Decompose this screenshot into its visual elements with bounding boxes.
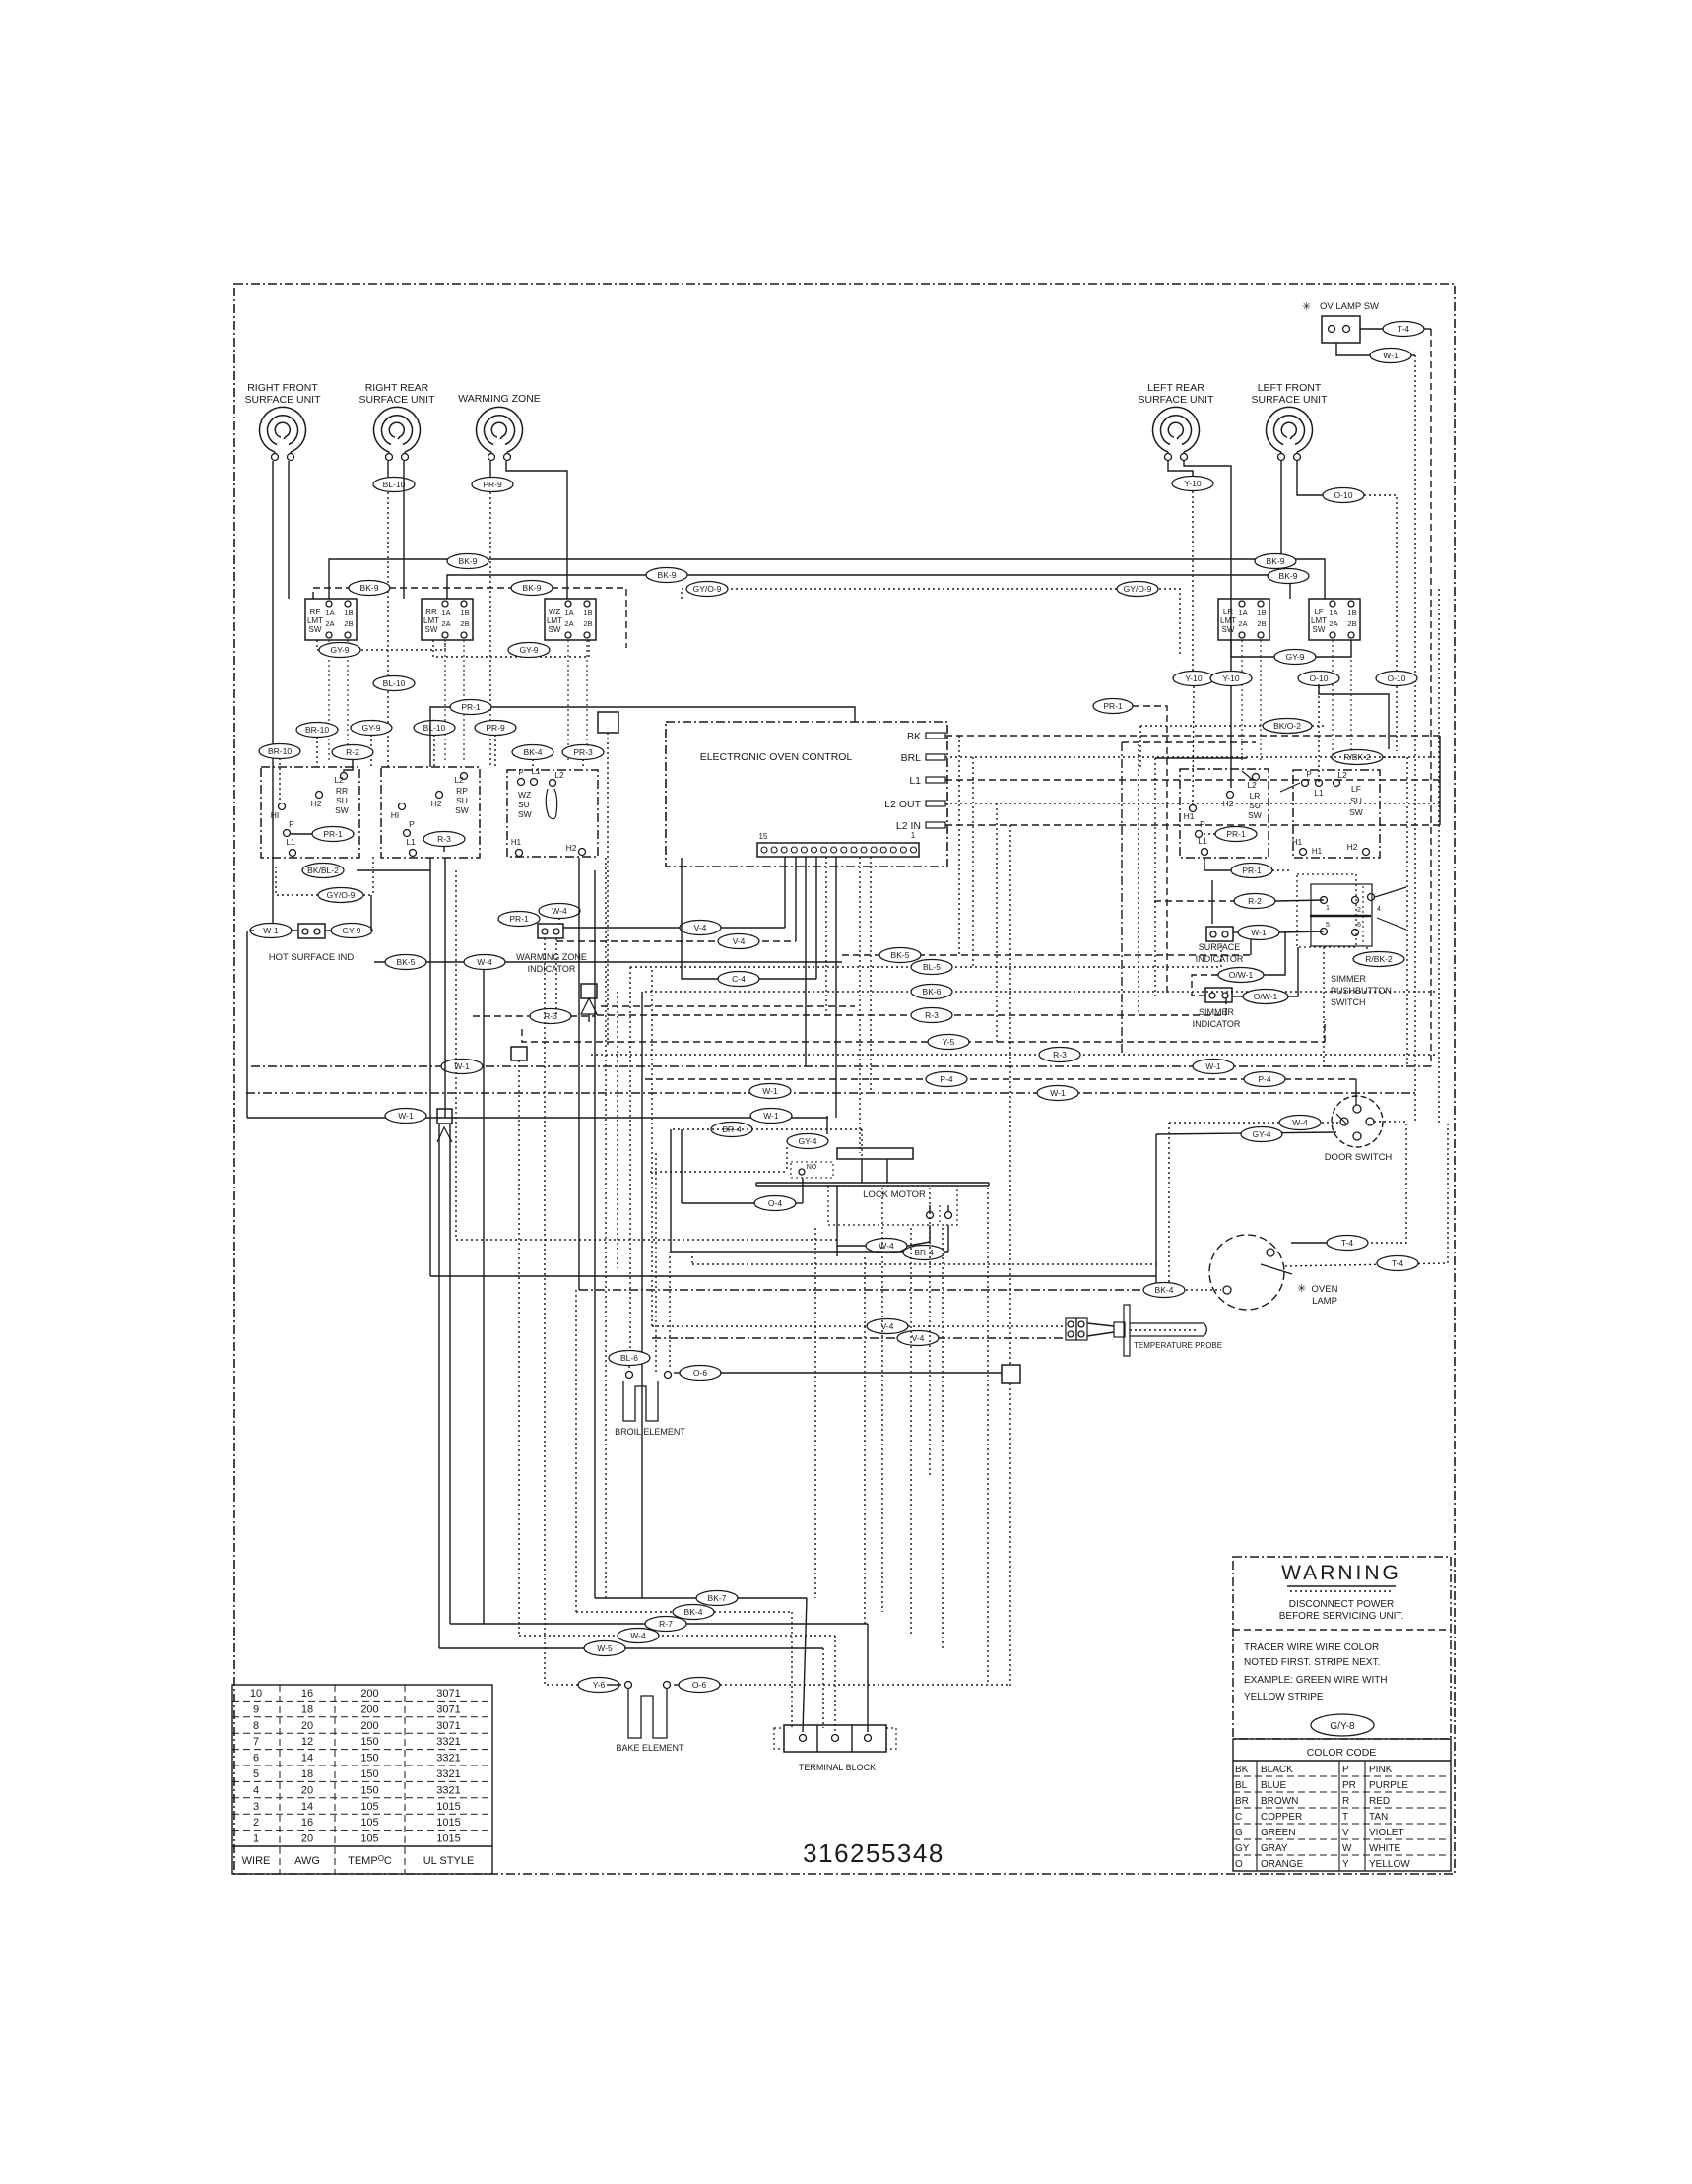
- wire BK-5 W-4: [374, 930, 1251, 970]
- svg-text:RR: RR: [336, 786, 348, 796]
- svg-text:H2: H2: [431, 799, 442, 808]
- wire R-2 right: [1154, 894, 1324, 909]
- svg-text:BK/O-2: BK/O-2: [1273, 721, 1301, 731]
- wire GY-4 to door switch: [1156, 1127, 1336, 1291]
- wire marker BK-O-2: [1140, 719, 1325, 769]
- svg-text:VIOLET: VIOLET: [1369, 1828, 1404, 1838]
- EOC output L2 IN: [896, 820, 1440, 832]
- wire BK-6: [645, 985, 1438, 999]
- wire GY-9 below RF box: [317, 640, 445, 658]
- wire C-4: [682, 858, 816, 987]
- EOC right edge drop: [959, 736, 1440, 1042]
- svg-text:PR-1: PR-1: [1103, 701, 1123, 711]
- svg-text:BL-10: BL-10: [383, 480, 406, 489]
- svg-text:H1: H1: [511, 838, 522, 847]
- svg-text:PR-1: PR-1: [1226, 829, 1246, 839]
- wire W-4 to door switch: [1169, 1116, 1340, 1291]
- svg-text:R-2: R-2: [1248, 896, 1262, 906]
- svg-text:ORANGE: ORANGE: [1261, 1859, 1304, 1870]
- svg-text:W-5: W-5: [597, 1643, 613, 1653]
- svg-text:L1: L1: [1314, 788, 1324, 798]
- svg-text:18: 18: [301, 1768, 313, 1780]
- wire BL-6: [609, 1351, 650, 1371]
- svg-text:BK-9: BK-9: [459, 556, 478, 566]
- svg-text:BK-9: BK-9: [360, 583, 379, 593]
- svg-text:LMT: LMT: [1220, 616, 1236, 625]
- svg-text:20: 20: [301, 1720, 313, 1732]
- svg-text:T: T: [1342, 1812, 1348, 1823]
- svg-text:TEMPERATURE PROBE: TEMPERATURE PROBE: [1134, 1341, 1222, 1350]
- svg-text:W-1: W-1: [763, 1111, 779, 1121]
- svg-text:GY-9: GY-9: [342, 926, 360, 935]
- svg-text:LR: LR: [1250, 791, 1261, 801]
- wire T-4 from lamp switch: [1360, 322, 1431, 1067]
- svg-text:O-10: O-10: [1334, 490, 1353, 500]
- wire marker GY-9: [351, 721, 392, 768]
- svg-text:3071: 3071: [436, 1720, 460, 1732]
- svg-text:T-4: T-4: [1398, 324, 1410, 334]
- svg-text:W-1: W-1: [1050, 1088, 1066, 1098]
- svg-text:BL-10: BL-10: [423, 723, 446, 733]
- limit switch LR LMT SW: [1218, 599, 1269, 762]
- svg-text:COPPER: COPPER: [1261, 1812, 1302, 1823]
- svg-text:WHITE: WHITE: [1369, 1843, 1401, 1854]
- svg-text:OV LAMP SW: OV LAMP SW: [1320, 301, 1379, 312]
- svg-text:RR: RR: [425, 608, 437, 616]
- svg-text:DOOR SWITCH: DOOR SWITCH: [1325, 1152, 1393, 1163]
- svg-text:R-3: R-3: [544, 1011, 557, 1021]
- svg-text:LR: LR: [1223, 608, 1233, 616]
- svg-text:12: 12: [301, 1736, 313, 1748]
- svg-text:Y-10: Y-10: [1222, 674, 1239, 683]
- wire RF coil right lead: [288, 461, 290, 599]
- junction box 3 with arrow: [437, 1109, 452, 1142]
- svg-text:GY-9: GY-9: [330, 645, 349, 655]
- svg-text:T-4: T-4: [1392, 1258, 1404, 1268]
- svg-text:1A: 1A: [441, 609, 450, 617]
- svg-text:TAN: TAN: [1369, 1812, 1388, 1823]
- svg-text:SW: SW: [1222, 625, 1235, 634]
- svg-text:P: P: [1306, 770, 1311, 779]
- svg-text:W-1: W-1: [1251, 928, 1267, 937]
- svg-text:PUSHBUTTON: PUSHBUTTON: [1331, 986, 1392, 996]
- svg-text:200: 200: [360, 1720, 378, 1732]
- svg-text:W-1: W-1: [1205, 1061, 1221, 1071]
- wire BK-4 to lamp: [579, 858, 1231, 1298]
- svg-text:T-4: T-4: [1341, 1238, 1354, 1248]
- svg-text:BK-5: BK-5: [891, 950, 910, 960]
- surface unit coil LEFT FRONT: [1251, 382, 1328, 461]
- svg-text:BAKE ELEMENT: BAKE ELEMENT: [616, 1743, 684, 1753]
- svg-text:ELECTRONIC OVEN CONTROL: ELECTRONIC OVEN CONTROL: [700, 751, 853, 763]
- svg-text:O: O: [1235, 1859, 1243, 1870]
- wire marker R-2: [332, 745, 373, 774]
- svg-text:W-1: W-1: [263, 926, 279, 935]
- svg-text:O-10: O-10: [1388, 674, 1406, 683]
- surface switch RP SU SW: [381, 767, 480, 858]
- wire V-4 second: [556, 934, 796, 949]
- svg-text:P-4: P-4: [940, 1074, 953, 1084]
- svg-text:200: 200: [360, 1688, 378, 1700]
- svg-text:L2: L2: [334, 775, 344, 785]
- svg-text:W-4: W-4: [477, 957, 492, 967]
- svg-text:GY-9: GY-9: [361, 723, 380, 733]
- svg-text:G: G: [1235, 1828, 1243, 1838]
- svg-text:H2: H2: [566, 843, 577, 853]
- svg-text:BK/BL-2: BK/BL-2: [307, 866, 339, 875]
- bus wire GY-O-9: [682, 582, 1180, 656]
- EOC terminal strip: [757, 831, 919, 857]
- svg-text:BK: BK: [1235, 1765, 1249, 1775]
- svg-text:1B: 1B: [1257, 609, 1266, 617]
- svg-text:BLUE: BLUE: [1261, 1780, 1286, 1791]
- surface switch LF SU SW: [1280, 770, 1380, 858]
- svg-text:105: 105: [360, 1817, 378, 1829]
- svg-text:PR-1: PR-1: [461, 702, 481, 712]
- surface unit coil WARMING ZONE: [458, 393, 541, 461]
- svg-text:WIRE: WIRE: [242, 1855, 271, 1867]
- svg-text:R/BK-2: R/BK-2: [1343, 752, 1371, 762]
- svg-text:PR-1: PR-1: [1242, 866, 1262, 875]
- svg-text:V-4: V-4: [912, 1333, 925, 1343]
- wire W-5: [439, 1641, 823, 1729]
- svg-text:Y: Y: [1342, 1859, 1349, 1870]
- svg-text:SW: SW: [335, 805, 349, 815]
- svg-text:P: P: [409, 819, 415, 829]
- svg-text:LEFT FRONT: LEFT FRONT: [1258, 382, 1322, 394]
- svg-text:9: 9: [253, 1703, 259, 1715]
- wire T-4 lower: [1285, 1123, 1448, 1271]
- wire O-4: [682, 1129, 803, 1211]
- svg-text:2B: 2B: [1257, 619, 1266, 628]
- svg-text:14: 14: [301, 1753, 313, 1765]
- svg-text:6: 6: [253, 1753, 259, 1765]
- svg-text:BK-4: BK-4: [524, 747, 543, 757]
- wire W-4 below motor: [837, 1186, 930, 1256]
- svg-text:O-10: O-10: [1310, 674, 1329, 683]
- wire gauge table: [232, 1685, 492, 1874]
- surface indicator: [1196, 880, 1244, 964]
- wire GY-4 into motor: [650, 1116, 828, 1172]
- limit switch RF LMT SW: [305, 599, 357, 762]
- svg-text:7: 7: [253, 1736, 259, 1748]
- EOC output L2 OUT: [884, 799, 1440, 810]
- svg-text:BR-10: BR-10: [268, 746, 292, 756]
- wire W-1 third: [247, 1109, 828, 1124]
- svg-text:TEMPOC: TEMPOC: [348, 1854, 392, 1867]
- svg-text:W-4: W-4: [1292, 1118, 1308, 1127]
- wire bake Y-6 O-6: [545, 938, 1010, 1693]
- svg-text:W-4: W-4: [630, 1631, 646, 1640]
- svg-text:O/W-1: O/W-1: [1229, 970, 1254, 980]
- surface switch RR SU SW: [261, 767, 359, 858]
- svg-text:SU: SU: [518, 800, 530, 809]
- svg-text:L2 IN: L2 IN: [896, 820, 921, 832]
- page border frame: [234, 284, 1455, 1874]
- svg-text:BK-7: BK-7: [708, 1593, 727, 1603]
- svg-text:1015: 1015: [436, 1801, 460, 1813]
- svg-text:RIGHT REAR: RIGHT REAR: [365, 382, 429, 394]
- wire R-3 long: [597, 995, 1226, 1023]
- svg-text:AWG: AWG: [294, 1855, 320, 1867]
- svg-text:P: P: [289, 819, 294, 829]
- svg-text:LMT: LMT: [547, 616, 562, 625]
- svg-text:15: 15: [759, 832, 768, 841]
- wire W-1 from lamp switch: [1336, 343, 1415, 1123]
- simmer pushbutton switch: [1297, 874, 1406, 1066]
- svg-text:L1: L1: [532, 767, 541, 776]
- svg-text:BRL: BRL: [901, 752, 922, 764]
- svg-text:BL-10: BL-10: [383, 678, 406, 688]
- svg-text:L2: L2: [1337, 770, 1347, 780]
- color code table: [1233, 1739, 1451, 1871]
- svg-text:1015: 1015: [436, 1833, 460, 1845]
- wire W-1 second: [246, 1084, 1415, 1101]
- wire BK-4 bottom: [576, 1290, 792, 1728]
- svg-text:SW: SW: [518, 809, 532, 819]
- svg-text:NOTED FIRST. STRIPE NEXT.: NOTED FIRST. STRIPE NEXT.: [1244, 1657, 1380, 1668]
- svg-text:SW: SW: [1349, 807, 1363, 817]
- svg-text:BK-4: BK-4: [1155, 1285, 1174, 1295]
- wire junction drops: [439, 1124, 450, 1648]
- svg-text:2B: 2B: [1347, 619, 1356, 628]
- wire marker R-BK-2 upper: [1332, 750, 1407, 1067]
- svg-text:WARMING ZONE: WARMING ZONE: [458, 393, 541, 405]
- wire R-7: [450, 1617, 868, 1733]
- svg-text:1: 1: [911, 831, 916, 840]
- svg-text:C-4: C-4: [732, 974, 746, 984]
- svg-text:1: 1: [1326, 905, 1330, 912]
- svg-text:6: 6: [1357, 922, 1361, 929]
- wire GY-O-9 left: [276, 857, 373, 903]
- svg-text:BK-6: BK-6: [923, 987, 942, 996]
- warning box: [1233, 1557, 1451, 1739]
- svg-text:P-4: P-4: [1258, 1074, 1271, 1084]
- EOC output L1: [909, 775, 1440, 787]
- svg-text:SW: SW: [455, 805, 469, 815]
- svg-text:14: 14: [301, 1801, 313, 1813]
- svg-text:3071: 3071: [436, 1688, 460, 1700]
- svg-text:SW: SW: [549, 625, 561, 634]
- svg-text:O/W-1: O/W-1: [1254, 992, 1278, 1001]
- surface switch WZ SU SW: [507, 767, 598, 857]
- svg-text:HOT SURFACE IND: HOT SURFACE IND: [269, 952, 355, 963]
- svg-text:UL STYLE: UL STYLE: [423, 1855, 475, 1867]
- svg-text:O-6: O-6: [692, 1680, 706, 1690]
- wire T-4 loop: [1291, 1122, 1406, 1251]
- svg-text:150: 150: [360, 1784, 378, 1796]
- svg-text:V-4: V-4: [733, 936, 746, 946]
- svg-text:1015: 1015: [436, 1817, 460, 1829]
- svg-text:W-1: W-1: [762, 1086, 778, 1096]
- svg-text:3321: 3321: [436, 1784, 460, 1796]
- svg-text:BLACK: BLACK: [1261, 1765, 1293, 1775]
- svg-text:1A: 1A: [1238, 609, 1247, 617]
- svg-text:BK-9: BK-9: [523, 583, 542, 593]
- svg-text:18: 18: [301, 1703, 313, 1715]
- svg-text:V-4: V-4: [694, 923, 707, 932]
- surface unit coil LEFT REAR: [1138, 382, 1214, 461]
- svg-text:2A: 2A: [441, 619, 450, 628]
- svg-text:TERMINAL BLOCK: TERMINAL BLOCK: [799, 1763, 876, 1772]
- hot surface indicator: [247, 924, 372, 1119]
- svg-text:L1: L1: [286, 837, 295, 847]
- svg-text:BR-4: BR-4: [914, 1248, 934, 1257]
- wire GY-9 below LR LF boxes: [1231, 640, 1351, 665]
- svg-text:16: 16: [301, 1817, 313, 1829]
- svg-text:H1: H1: [1184, 811, 1195, 821]
- wire BL-5: [630, 945, 1221, 975]
- svg-text:SIMMER: SIMMER: [1331, 974, 1367, 984]
- wire R-3 mid: [473, 1006, 855, 1024]
- wire LF coil right lead O-10: [1297, 461, 1417, 751]
- svg-text:3071: 3071: [436, 1703, 460, 1715]
- svg-text:✳: ✳: [1297, 1283, 1306, 1295]
- wire marker PR-1 in LR box: [1204, 827, 1257, 842]
- svg-text:3: 3: [253, 1801, 259, 1813]
- svg-text:LMT: LMT: [307, 616, 323, 625]
- lock motor: [756, 1148, 989, 1225]
- electronic oven control box: [666, 722, 947, 867]
- limit switch WZ LMT SW: [545, 599, 596, 762]
- svg-text:C: C: [1235, 1812, 1242, 1823]
- oven lamp: [1209, 1235, 1338, 1310]
- svg-text:WARNING: WARNING: [1281, 1562, 1401, 1584]
- svg-text:2A: 2A: [1238, 619, 1247, 628]
- svg-text:L2: L2: [554, 770, 564, 780]
- limit switch RR LMT SW: [422, 599, 473, 762]
- svg-text:RIGHT FRONT: RIGHT FRONT: [247, 382, 318, 394]
- svg-text:PR-3: PR-3: [573, 747, 593, 757]
- svg-text:LEFT REAR: LEFT REAR: [1147, 382, 1204, 394]
- svg-text:LMT: LMT: [423, 616, 439, 625]
- wire y1296: [430, 589, 1439, 1598]
- wire marker PR-9: [475, 721, 516, 768]
- svg-text:5: 5: [253, 1768, 259, 1780]
- svg-text:LAMP: LAMP: [1312, 1296, 1337, 1307]
- wire RR coil right lead: [403, 461, 405, 599]
- svg-text:2B: 2B: [583, 619, 592, 628]
- simmer indicator: [1192, 931, 1298, 1029]
- svg-text:SW: SW: [425, 625, 438, 634]
- junction thermal fuse: [581, 984, 597, 1022]
- svg-text:BK-9: BK-9: [1267, 556, 1285, 566]
- svg-text:1A: 1A: [564, 609, 573, 617]
- door switch: [1325, 1096, 1393, 1163]
- svg-text:PR-1: PR-1: [509, 914, 529, 924]
- svg-text:INDICATOR: INDICATOR: [1193, 1019, 1241, 1029]
- wire dashed long 1259: [456, 1239, 837, 1241]
- svg-text:GY/O-9: GY/O-9: [327, 890, 356, 900]
- svg-text:3321: 3321: [436, 1736, 460, 1748]
- svg-text:RP: RP: [456, 786, 468, 796]
- svg-text:WZ: WZ: [518, 790, 531, 800]
- svg-text:SURFACE UNIT: SURFACE UNIT: [358, 394, 435, 406]
- wire GY-9 below RR box: [433, 640, 589, 658]
- wire BK-7: [595, 870, 807, 1732]
- svg-text:2A: 2A: [1329, 619, 1337, 628]
- svg-text:PURPLE: PURPLE: [1369, 1780, 1408, 1791]
- svg-text:GREEN: GREEN: [1261, 1828, 1296, 1838]
- svg-text:316255348: 316255348: [803, 1838, 944, 1868]
- surface unit coil RIGHT REAR: [358, 382, 435, 461]
- wire P-4: [645, 1072, 1356, 1106]
- svg-text:OVEN: OVEN: [1312, 1284, 1338, 1295]
- svg-text:L2 OUT: L2 OUT: [884, 799, 921, 810]
- svg-text:SU: SU: [336, 796, 348, 805]
- svg-text:SU: SU: [1249, 801, 1261, 810]
- junction box broil: [1002, 1365, 1020, 1686]
- svg-text:1B: 1B: [583, 609, 592, 617]
- EOC output BK: [907, 731, 1440, 742]
- svg-text:INDICATOR: INDICATOR: [1196, 954, 1244, 964]
- svg-text:SW: SW: [309, 625, 322, 634]
- svg-text:1A: 1A: [1329, 609, 1337, 617]
- svg-text:LF: LF: [1351, 784, 1361, 794]
- wire marker PR-3: [562, 745, 604, 768]
- wire LR coil left lead Y-10: [1168, 461, 1214, 803]
- svg-text:LOCK MOTOR: LOCK MOTOR: [863, 1189, 926, 1200]
- svg-text:1B: 1B: [344, 609, 353, 617]
- wire marker BR-10 second: [259, 744, 300, 807]
- wire RR coil left lead BL-10: [373, 461, 415, 767]
- svg-text:HI: HI: [271, 810, 280, 820]
- svg-text:P: P: [1200, 819, 1205, 829]
- svg-text:2B: 2B: [344, 619, 353, 628]
- svg-text:SURFACE UNIT: SURFACE UNIT: [1251, 394, 1328, 406]
- svg-text:W-4: W-4: [879, 1241, 894, 1251]
- svg-text:O-4: O-4: [768, 1198, 782, 1208]
- svg-text:20: 20: [301, 1784, 313, 1796]
- EOC output BRL: [901, 752, 1440, 764]
- svg-text:O-6: O-6: [693, 1368, 707, 1378]
- svg-text:8: 8: [253, 1720, 259, 1732]
- svg-text:W-1: W-1: [398, 1111, 414, 1121]
- wire W-1 main: [251, 1060, 1431, 1074]
- svg-text:BL: BL: [1235, 1780, 1248, 1791]
- limit switch LF LMT SW: [1309, 599, 1360, 762]
- svg-text:1B: 1B: [460, 609, 469, 617]
- svg-text:R-3: R-3: [1053, 1050, 1067, 1060]
- svg-text:WARMING ZONE: WARMING ZONE: [516, 952, 587, 962]
- wire PR-1 long: [430, 700, 855, 768]
- svg-text:R-7: R-7: [659, 1619, 673, 1629]
- svg-text:DISCONNECT POWER: DISCONNECT POWER: [1289, 1599, 1395, 1610]
- wire RF coil left lead: [272, 461, 274, 924]
- svg-text:PR-9: PR-9: [486, 723, 505, 733]
- svg-text:BR: BR: [1235, 1796, 1249, 1807]
- svg-text:Y-10: Y-10: [1184, 479, 1201, 488]
- bus wire BK-9 left lower: [313, 581, 626, 649]
- svg-text:Y-10: Y-10: [1185, 674, 1202, 683]
- wire marker BL-10: [414, 721, 455, 768]
- wire V-4 upper: [563, 921, 785, 935]
- svg-text:W-4: W-4: [552, 906, 567, 916]
- svg-text:PINK: PINK: [1369, 1765, 1393, 1775]
- svg-text:R-3: R-3: [925, 1010, 939, 1020]
- wire Y-5: [522, 1019, 1325, 1050]
- surface unit coil RIGHT FRONT: [244, 382, 321, 461]
- broil element: [615, 1372, 685, 1438]
- svg-text:L1: L1: [909, 775, 921, 787]
- svg-text:GY-9: GY-9: [519, 645, 538, 655]
- svg-text:GY-9: GY-9: [1285, 652, 1304, 662]
- svg-text:EXAMPLE: GREEN WIRE WITH: EXAMPLE: GREEN WIRE WITH: [1244, 1675, 1388, 1686]
- svg-text:RF: RF: [310, 608, 321, 616]
- wire LR coil right lead Y-10: [1184, 461, 1252, 788]
- svg-text:2A: 2A: [564, 619, 573, 628]
- svg-text:GRAY: GRAY: [1261, 1843, 1288, 1854]
